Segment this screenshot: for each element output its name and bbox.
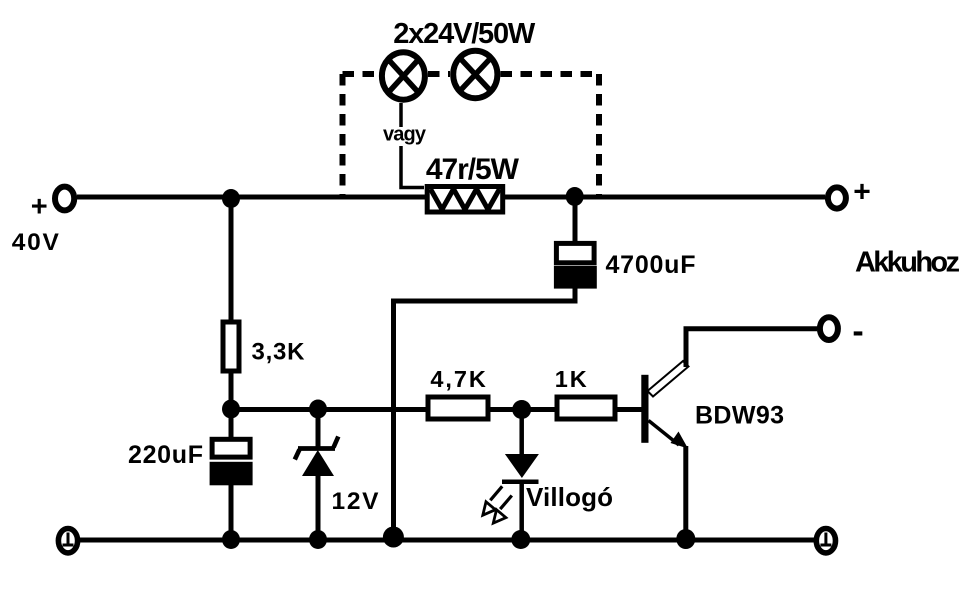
wire lamp drop (vagy link) <box>401 103 424 188</box>
wire zener top <box>316 410 321 449</box>
zener diode 12V <box>295 437 339 477</box>
wire 4700uF top <box>573 196 578 244</box>
wire bottom rail <box>80 538 814 543</box>
svg-text:Akkuhoz: Akkuhoz <box>855 247 960 279</box>
svg-text:+: + <box>853 175 871 208</box>
svg-text:1K: 1K <box>555 366 587 392</box>
svg-text:4700uF: 4700uF <box>606 251 696 279</box>
wire dashed between lamps <box>428 71 450 77</box>
resistor 47r/5W <box>427 187 503 213</box>
LED flashing arrow 1 <box>490 486 502 500</box>
wire 220uF top <box>229 410 234 442</box>
svg-text:3,3K: 3,3K <box>252 339 306 366</box>
label vagy <box>380 127 428 146</box>
node J rail emitter junction <box>676 529 695 549</box>
svg-text:220uF: 220uF <box>128 441 203 469</box>
wire 3,3K branch lower <box>229 372 234 410</box>
svg-text:-: - <box>852 313 863 351</box>
lamp L1 <box>382 52 425 99</box>
wire 4700uF return elbow <box>394 286 576 301</box>
wire top rail <box>77 195 825 200</box>
node C row left junction <box>222 400 240 419</box>
node B top-right junction <box>566 187 584 206</box>
node I rail LED junction <box>511 530 530 549</box>
node A top-left junction <box>222 189 240 208</box>
svg-text:4,7K: 4,7K <box>430 366 485 392</box>
svg-text:+: + <box>31 191 48 223</box>
terminal - output <box>820 317 838 340</box>
capacitor 4700uF <box>554 243 597 288</box>
resistor 4,7K <box>428 397 488 419</box>
node H rail return junction <box>383 527 404 548</box>
wire zener bottom <box>316 475 321 540</box>
wire collector to minus terminal <box>686 329 817 362</box>
node G rail zener junction <box>309 530 327 549</box>
wire dashed left vertical <box>340 74 346 195</box>
LED flashing arrow 2 <box>500 496 512 510</box>
svg-text:Villogó: Villogó <box>526 482 613 512</box>
ground terminal left <box>58 529 77 553</box>
wire dashed top-left horizontal <box>343 71 380 77</box>
resistor 3,3K <box>223 322 239 371</box>
wire return vertical <box>391 299 396 541</box>
svg-text:vagy: vagy <box>383 124 427 146</box>
node D zener top junction <box>309 400 327 419</box>
wire node row <box>231 407 642 412</box>
svg-text:BDW93: BDW93 <box>695 402 784 430</box>
wire LED top <box>519 410 524 457</box>
LED Villogó <box>502 454 539 484</box>
svg-text:40V: 40V <box>12 229 60 256</box>
wire 3,3K branch upper <box>229 197 234 321</box>
wire emitter vertical <box>683 446 688 539</box>
node E LED top junction <box>512 400 531 419</box>
transistor Q1 BDW93 <box>641 329 688 449</box>
svg-text:12V: 12V <box>332 488 380 515</box>
node F rail 220uF junction <box>222 530 240 549</box>
svg-text:47r/5W: 47r/5W <box>426 153 520 186</box>
terminal + output <box>828 187 846 208</box>
wire dashed right vertical <box>596 74 602 195</box>
svg-text:2x24V/50W: 2x24V/50W <box>393 18 536 50</box>
lamp L2 <box>453 51 497 98</box>
ground terminal right <box>816 529 835 553</box>
wire 220uF bottom <box>229 484 234 540</box>
capacitor 220uF <box>210 439 253 485</box>
wire LED bottom <box>519 483 524 540</box>
resistor 1K <box>557 397 615 419</box>
terminal + input <box>55 187 74 211</box>
wire dashed top-right horizontal <box>501 71 600 77</box>
